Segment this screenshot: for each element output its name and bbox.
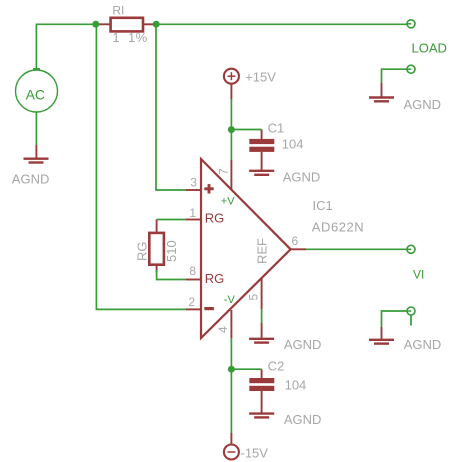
svg-text:510: 510 bbox=[164, 240, 179, 262]
wire AGND bottom right bbox=[382, 311, 407, 328]
wire AC top to RI bbox=[36, 24, 95, 69]
pin AGND top right bbox=[407, 65, 415, 73]
pin 8 stub bbox=[186, 279, 201, 281]
svg-text:C2: C2 bbox=[268, 359, 285, 374]
wire pin 1 to RG bbox=[157, 219, 186, 221]
ground AGND (bottom right) bbox=[369, 327, 441, 352]
svg-text:AGND: AGND bbox=[12, 172, 50, 187]
capacitor C1 bbox=[249, 121, 303, 171]
wire long vertical to pin 2 bbox=[96, 24, 186, 309]
supply -15V bbox=[224, 433, 268, 461]
wire RI right down to pin 3 bbox=[156, 24, 186, 190]
capacitor C2 bbox=[249, 359, 306, 413]
wire output pin 6 to VI bbox=[306, 248, 407, 250]
svg-text:RI: RI bbox=[112, 3, 124, 17]
pin 3 stub bbox=[186, 189, 201, 191]
svg-text:AGND: AGND bbox=[283, 170, 321, 185]
pin 2 stub bbox=[186, 308, 201, 310]
pin 1 stub bbox=[186, 219, 201, 221]
svg-text:IC1: IC1 bbox=[313, 198, 333, 213]
wire junction down to -15V bbox=[230, 369, 232, 433]
svg-text:104: 104 bbox=[282, 137, 304, 152]
node junction right of RI bbox=[153, 21, 160, 28]
svg-text:AGND: AGND bbox=[284, 412, 322, 427]
wire top to LOAD bbox=[156, 23, 407, 25]
svg-text:+15V: +15V bbox=[245, 70, 276, 85]
svg-text:RG: RG bbox=[205, 271, 225, 286]
svg-text:-V: -V bbox=[224, 294, 236, 306]
ground AGND (C1) bbox=[249, 170, 320, 185]
wire +15V down to pin 7 bbox=[230, 99, 232, 161]
pin VI bbox=[407, 245, 424, 281]
wire AC bottom to AGND bbox=[35, 112, 37, 146]
pin 7 stub bbox=[230, 160, 232, 189]
wire pin 4 down to junction bbox=[230, 338, 232, 370]
wire junction to C2 bbox=[231, 368, 261, 370]
ground AGND (C2) bbox=[249, 412, 321, 427]
pin 4 stub bbox=[230, 310, 232, 338]
svg-text:LOAD: LOAD bbox=[412, 41, 447, 56]
ground AGND (REF) bbox=[249, 323, 321, 352]
svg-text:1 1%: 1 1% bbox=[112, 30, 147, 45]
svg-text:AGND: AGND bbox=[284, 337, 322, 352]
svg-text:RG: RG bbox=[205, 211, 225, 226]
ground AGND (top right) bbox=[369, 83, 441, 112]
wire REF pin to AGND bbox=[261, 309, 263, 324]
svg-text:104: 104 bbox=[285, 378, 307, 393]
svg-text:+V: +V bbox=[221, 195, 235, 207]
svg-text:3: 3 bbox=[190, 175, 197, 189]
resistor RG bbox=[135, 220, 180, 273]
svg-text:AD622N: AD622N bbox=[312, 219, 364, 234]
op-amp IC1 AD622N bbox=[186, 159, 364, 338]
svg-text:RG: RG bbox=[135, 242, 150, 262]
svg-text:1: 1 bbox=[189, 206, 196, 220]
svg-text:4: 4 bbox=[216, 326, 230, 333]
node junction C2 bbox=[228, 366, 235, 373]
node junction left of RI bbox=[92, 21, 99, 28]
svg-text:AGND: AGND bbox=[404, 97, 442, 112]
wire junction to C1 bbox=[231, 129, 261, 131]
svg-text:REF: REF bbox=[254, 238, 269, 264]
svg-text:C1: C1 bbox=[268, 121, 285, 136]
svg-text:AC: AC bbox=[26, 87, 45, 103]
svg-text:5: 5 bbox=[247, 294, 261, 301]
svg-text:8: 8 bbox=[189, 264, 196, 278]
pin 6 stub bbox=[291, 248, 306, 250]
svg-text:AGND: AGND bbox=[404, 337, 442, 352]
wire AGND top right bbox=[382, 69, 407, 83]
svg-text:2: 2 bbox=[188, 295, 195, 309]
ground AGND (under AC) bbox=[12, 145, 50, 187]
minus mark bbox=[204, 307, 214, 310]
svg-text:-15V: -15V bbox=[241, 446, 269, 461]
resistor RI bbox=[98, 3, 157, 45]
pin LOAD bbox=[407, 20, 447, 56]
pin AGND bottom right bbox=[407, 307, 415, 326]
wire RG to pin 8 bbox=[157, 270, 186, 280]
plus mark bbox=[204, 187, 213, 190]
svg-text:VI: VI bbox=[413, 267, 424, 281]
svg-text:6: 6 bbox=[292, 234, 299, 248]
AC source bbox=[16, 69, 58, 112]
node junction C1 bbox=[228, 126, 235, 133]
svg-text:7: 7 bbox=[216, 168, 230, 175]
pin 5 stub (REF) bbox=[261, 278, 263, 309]
supply +15V bbox=[224, 69, 276, 100]
